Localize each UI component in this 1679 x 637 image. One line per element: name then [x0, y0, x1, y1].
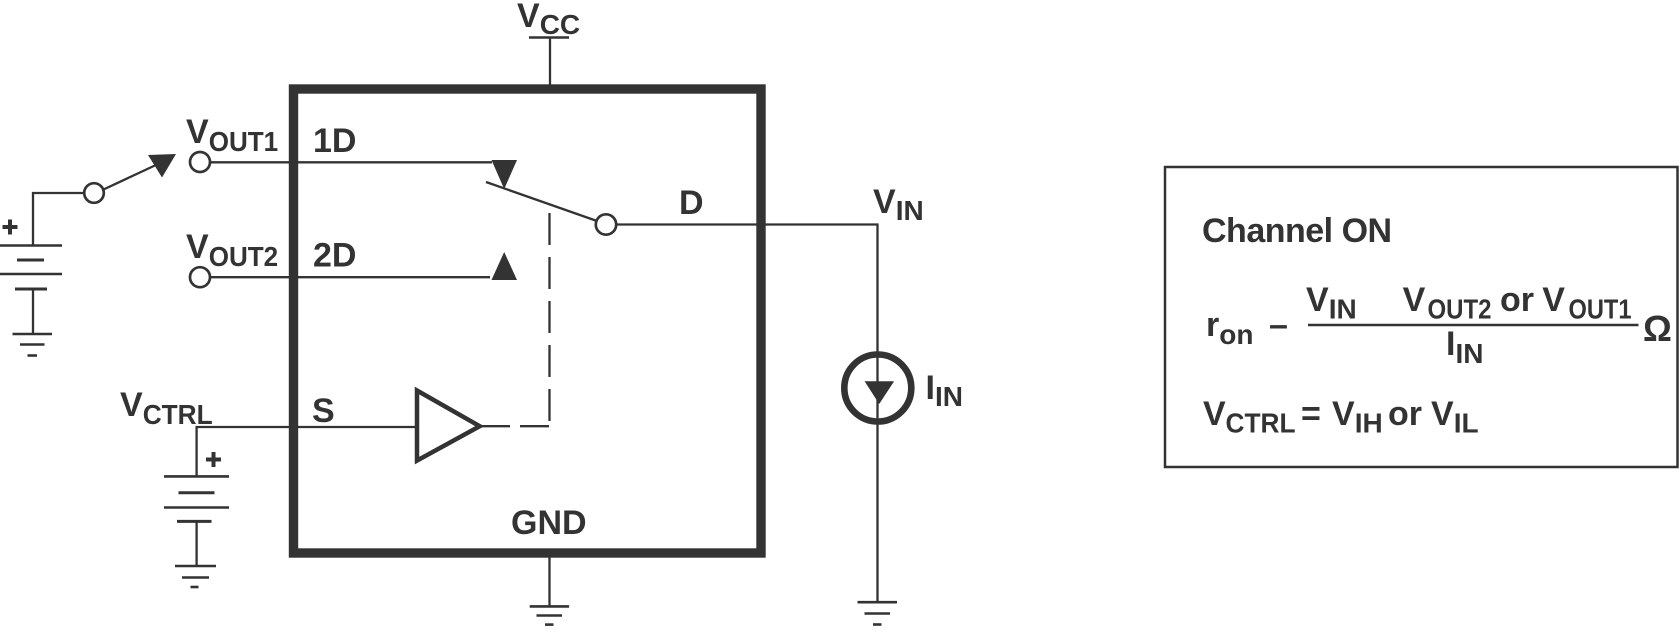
dashed control line horizontal — [481, 425, 550, 427]
ground below battery V1 — [13, 334, 53, 356]
throw contact 2D arrow — [492, 252, 518, 280]
throw contact 1D arrow — [492, 160, 518, 189]
svg-text:Channel ON: Channel ON — [1202, 212, 1392, 250]
svg-text:OUT1: OUT1 — [1569, 294, 1632, 325]
ground below GND pin — [530, 606, 569, 624]
battery V2 plate short bottom — [177, 520, 212, 523]
svg-text:V: V — [1542, 281, 1565, 319]
battery V2 plate long — [164, 506, 229, 509]
wire 2D — [210, 276, 490, 278]
ground below current source I1 — [858, 602, 898, 624]
battery V2 plus sign — [206, 452, 221, 467]
switch blade — [486, 182, 597, 221]
wire S input — [197, 427, 417, 476]
svg-text:=: = — [1301, 395, 1321, 433]
battery V1 plate short bottom — [15, 288, 47, 291]
svg-text:GND: GND — [511, 504, 587, 542]
dashed control line vertical — [548, 205, 550, 421]
battery V1 plus sign — [3, 220, 18, 235]
current source I1 arrow — [865, 381, 895, 404]
wire battery V1 to ground — [32, 289, 34, 334]
fraction bar — [1308, 324, 1639, 326]
battery V1 plate short — [17, 259, 44, 262]
svg-text:1D: 1D — [313, 122, 356, 160]
battery V2 plate long top — [164, 475, 229, 478]
svg-text:S: S — [312, 392, 335, 430]
switch SW1 pivot — [84, 183, 104, 203]
battery V2 plate short — [179, 491, 215, 494]
wire GND pin — [548, 558, 550, 607]
svg-text:or: or — [1388, 395, 1422, 433]
switch SW1 blade — [104, 165, 158, 190]
svg-text:D: D — [679, 184, 704, 222]
svg-text:2D: 2D — [313, 237, 356, 275]
wire D to VIN corner — [616, 225, 877, 352]
power rail VCC tick — [529, 36, 569, 39]
pole terminal D — [596, 214, 616, 234]
wire battery V1 to switch pivot — [33, 193, 84, 246]
battery V1 plate long — [0, 273, 62, 276]
wire VCC to box — [549, 39, 551, 86]
battery V1 plate long top — [0, 244, 62, 247]
ground below battery V2 — [175, 566, 216, 587]
svg-text:Ω: Ω — [1643, 308, 1672, 349]
svg-text:V: V — [1403, 281, 1426, 319]
current source I1 — [844, 355, 911, 422]
svg-text:or: or — [1500, 281, 1534, 319]
wire 1D — [210, 161, 492, 163]
svg-text:V: V — [1203, 395, 1226, 433]
buffer U1 — [417, 391, 480, 461]
terminal VOUT1 — [190, 152, 210, 172]
formula box frame — [1165, 167, 1678, 467]
svg-text:OUT2: OUT2 — [1428, 294, 1492, 325]
svg-text:–: – — [1269, 306, 1288, 344]
wire battery V2 to ground — [195, 521, 197, 566]
terminal VOUT2 — [190, 267, 210, 287]
switch SW1 arrowhead — [148, 154, 176, 178]
IC box — [294, 89, 762, 553]
wire VIN through current source to ground — [876, 354, 878, 602]
svg-text:CTRL: CTRL — [1226, 408, 1296, 439]
